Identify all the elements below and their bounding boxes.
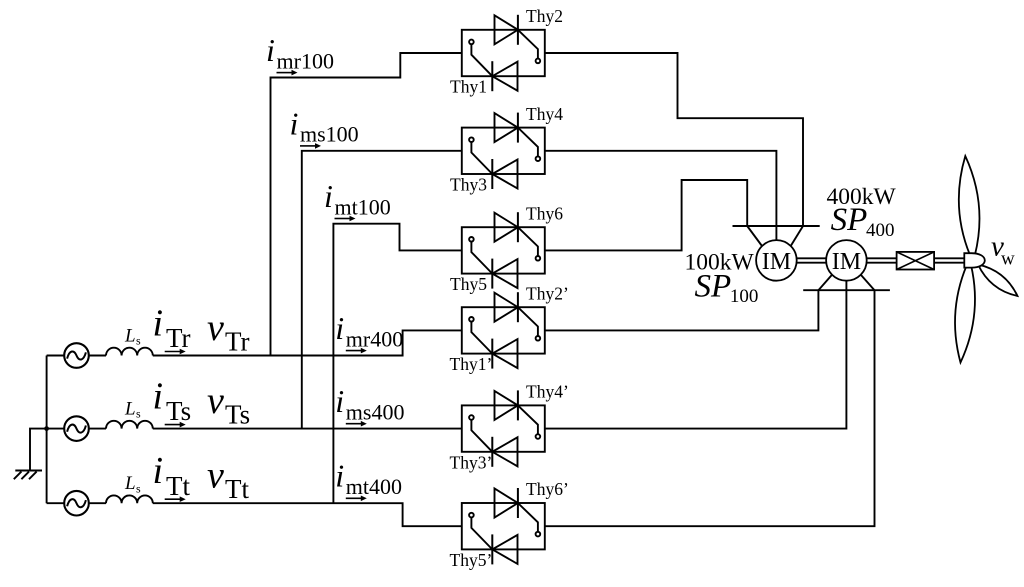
svg-text:ms100: ms100 — [300, 122, 359, 147]
svg-text:Thy2: Thy2 — [526, 6, 563, 26]
svg-text:mr100: mr100 — [277, 48, 334, 73]
svg-text:mt400: mt400 — [346, 474, 402, 499]
svg-text:i: i — [335, 383, 344, 419]
svg-text:Ts: Ts — [166, 396, 191, 426]
svg-text:Thy3: Thy3 — [450, 175, 487, 195]
svg-text:400: 400 — [866, 220, 895, 241]
svg-text:Thy4: Thy4 — [526, 104, 563, 124]
svg-text:L: L — [124, 473, 136, 494]
svg-text:Thy4’: Thy4’ — [526, 382, 569, 402]
svg-text:Thy2’: Thy2’ — [526, 283, 569, 303]
svg-text:v: v — [207, 455, 224, 497]
svg-text:mt100: mt100 — [335, 194, 391, 219]
svg-text:Thy6’: Thy6’ — [526, 479, 569, 499]
svg-text:SP: SP — [831, 202, 868, 238]
svg-text:i: i — [266, 32, 275, 68]
svg-text:Thy5’: Thy5’ — [450, 550, 493, 570]
svg-text:L: L — [124, 398, 136, 419]
svg-text:i: i — [335, 310, 344, 346]
svg-text:100: 100 — [730, 286, 759, 307]
svg-text:i: i — [335, 458, 344, 494]
svg-text:IM: IM — [762, 249, 791, 275]
svg-text:Tr: Tr — [225, 326, 250, 356]
svg-text:i: i — [153, 302, 164, 344]
svg-text:s: s — [136, 334, 141, 348]
svg-text:i: i — [290, 105, 299, 141]
svg-text:mr400: mr400 — [346, 326, 403, 351]
svg-text:Thy1’: Thy1’ — [450, 354, 493, 374]
svg-text:Tt: Tt — [166, 471, 190, 501]
svg-text:v: v — [207, 307, 224, 349]
svg-text:Ts: Ts — [225, 400, 250, 430]
svg-text:i: i — [153, 450, 164, 492]
svg-text:ms400: ms400 — [346, 400, 405, 425]
svg-text:L: L — [124, 325, 136, 346]
svg-text:Thy6: Thy6 — [526, 203, 563, 223]
svg-text:w: w — [1001, 249, 1015, 270]
svg-text:Thy3’: Thy3’ — [450, 452, 493, 472]
svg-text:Thy5: Thy5 — [450, 274, 487, 294]
svg-text:s: s — [136, 481, 141, 495]
svg-text:Tr: Tr — [166, 323, 191, 353]
svg-text:IM: IM — [832, 249, 861, 275]
svg-text:i: i — [153, 375, 164, 417]
svg-text:i: i — [324, 178, 333, 214]
svg-text:Thy1: Thy1 — [450, 77, 487, 97]
svg-text:v: v — [207, 380, 224, 422]
svg-text:Tt: Tt — [225, 474, 249, 504]
svg-text:SP: SP — [695, 269, 732, 305]
svg-text:s: s — [136, 407, 141, 421]
